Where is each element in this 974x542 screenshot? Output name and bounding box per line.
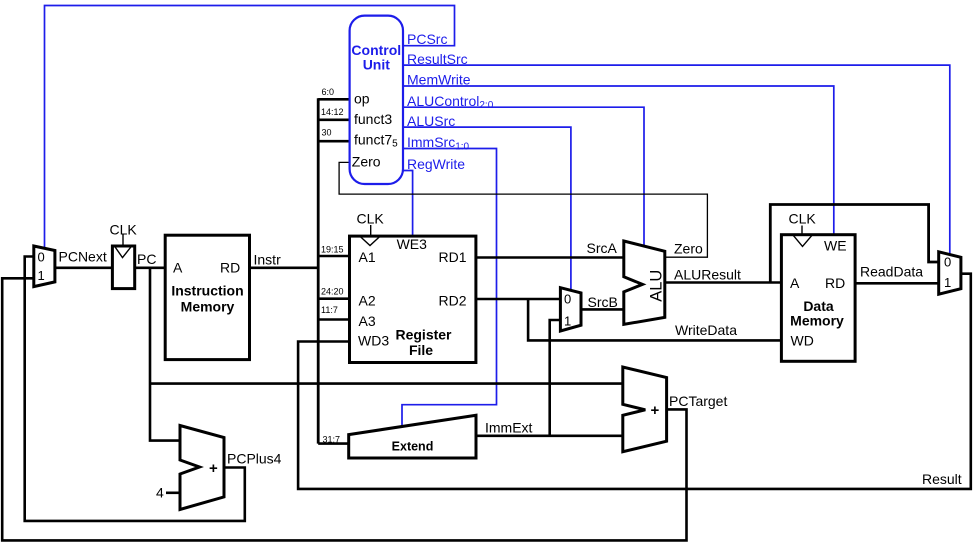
svg-text:RD: RD xyxy=(825,275,845,291)
wire PC branch down (to adders) xyxy=(150,268,180,441)
wire PC (register to Instruction Memory A) xyxy=(135,266,166,269)
svg-text:0: 0 xyxy=(944,255,951,270)
wire ImmExt branch to SrcB mux input 1 xyxy=(550,320,561,436)
svg-text:CLK: CLK xyxy=(110,222,138,238)
wire PCNext xyxy=(55,266,113,269)
svg-text:File: File xyxy=(409,342,433,358)
wire A1 stub (19:15) xyxy=(318,255,349,258)
svg-text:ResultSrc: ResultSrc xyxy=(407,51,468,67)
svg-text:30: 30 xyxy=(322,128,332,138)
svg-text:ALUSrc: ALUSrc xyxy=(407,113,455,129)
svg-text:A: A xyxy=(790,275,800,291)
svg-text:funct75: funct75 xyxy=(354,131,398,149)
svg-text:1: 1 xyxy=(944,275,951,290)
svg-text:A2: A2 xyxy=(359,293,376,309)
svg-text:+: + xyxy=(209,460,218,477)
wire Result (Result mux output to WD3 and around) xyxy=(298,274,971,489)
wire ImmExt (Extend output to PCTarget adder) xyxy=(476,434,623,437)
svg-text:ImmExt: ImmExt xyxy=(485,420,533,436)
svg-text:4: 4 xyxy=(156,485,164,501)
svg-text:31:7: 31:7 xyxy=(323,435,341,445)
svg-text:1: 1 xyxy=(564,313,571,328)
svg-text:WD: WD xyxy=(791,332,814,348)
svg-text:0: 0 xyxy=(38,250,45,265)
svg-text:PCNext: PCNext xyxy=(59,249,107,265)
svg-text:MemWrite: MemWrite xyxy=(407,72,471,88)
svg-text:op: op xyxy=(354,91,370,107)
svg-text:+: + xyxy=(651,402,660,419)
wire ALUResult to Data Memory A xyxy=(665,281,782,284)
svg-text:Register: Register xyxy=(395,327,452,343)
svg-text:CLK: CLK xyxy=(357,211,385,227)
svg-text:Unit: Unit xyxy=(363,57,391,73)
svg-text:6:0: 6:0 xyxy=(322,87,335,97)
svg-text:14:12: 14:12 xyxy=(321,107,344,117)
svg-text:PCTarget: PCTarget xyxy=(669,393,727,409)
wire PCTarget loop (adder output to PC mux input 1) xyxy=(2,278,686,540)
svg-text:Memory: Memory xyxy=(790,312,844,328)
wire ReadData to Result mux input 1 xyxy=(855,282,939,285)
svg-text:CLK: CLK xyxy=(789,211,817,227)
svg-text:ALU: ALU xyxy=(648,270,666,302)
svg-text:RegWrite: RegWrite xyxy=(407,156,465,172)
mux SrcB (0/1) xyxy=(560,288,581,331)
wire Zero (thin feedback from ALU to Control Unit) xyxy=(339,162,707,257)
wire ImmSrc (blue control net to Extend) xyxy=(402,149,497,427)
wire PCSrc (blue control net from Control Unit to PC mux select) xyxy=(45,6,455,249)
svg-text:Instruction: Instruction xyxy=(171,283,243,299)
svg-text:A: A xyxy=(173,260,183,276)
svg-text:RD: RD xyxy=(220,260,240,276)
svg-text:SrcA: SrcA xyxy=(587,240,618,256)
wire RD2 to SrcB mux input 0 xyxy=(476,298,561,301)
block Data Memory with clock xyxy=(781,235,855,362)
wire RD1 to SrcA xyxy=(476,256,624,259)
wire PC to PCTarget adder xyxy=(150,382,623,385)
svg-text:PC: PC xyxy=(137,251,156,267)
svg-text:SrcB: SrcB xyxy=(588,294,618,310)
wire RegWrite (blue control net to Register File WE3) xyxy=(403,171,413,237)
wire ALUSrc (blue control net to SrcB mux select) xyxy=(403,127,571,290)
svg-text:WE: WE xyxy=(824,237,847,253)
wire 31:7 stub to Extend xyxy=(318,442,349,445)
wire funct3 stub to Control Unit xyxy=(318,119,349,122)
wire ALUControl (blue control net to ALU) xyxy=(403,107,644,246)
adder PCPlus4 xyxy=(180,426,224,510)
block Control Unit xyxy=(350,16,403,184)
svg-text:WD3: WD3 xyxy=(358,333,389,349)
block Extend xyxy=(349,415,476,458)
svg-text:RD2: RD2 xyxy=(439,293,467,309)
register PC with clock input xyxy=(112,246,134,289)
wire ResultSrc (blue control net to Result mux select) xyxy=(403,65,950,255)
svg-text:Result: Result xyxy=(922,471,962,487)
svg-text:ALUResult: ALUResult xyxy=(674,267,741,283)
svg-text:PCSrc: PCSrc xyxy=(407,31,447,47)
wire PCPlus4 loop (adder output to PC mux input 0) xyxy=(25,257,245,521)
svg-text:1: 1 xyxy=(38,268,45,283)
svg-text:RD1: RD1 xyxy=(439,249,467,265)
wire Instr (Instruction Memory RD to instruction bus) xyxy=(250,266,319,269)
svg-text:PCPlus4: PCPlus4 xyxy=(227,451,282,467)
wire SrcB mux output to ALU xyxy=(581,308,624,311)
svg-text:Zero: Zero xyxy=(674,241,703,257)
svg-text:Memory: Memory xyxy=(181,298,235,314)
svg-text:ReadData: ReadData xyxy=(860,264,923,280)
wire op stub to Control Unit xyxy=(318,98,349,101)
svg-text:24:20: 24:20 xyxy=(321,287,344,297)
adder PCTarget xyxy=(623,367,667,452)
svg-text:19:15: 19:15 xyxy=(321,245,344,255)
svg-text:0: 0 xyxy=(564,292,571,307)
block Instruction Memory xyxy=(165,235,249,359)
alu ALU xyxy=(624,241,665,324)
svg-text:WE3: WE3 xyxy=(397,236,428,252)
block Register File with clock xyxy=(350,236,476,362)
wire ALUResult loop over Data Memory to Result mux input 0 xyxy=(770,205,938,283)
wire A2 stub (24:20) xyxy=(318,297,349,300)
wire WriteData branch xyxy=(528,299,781,340)
svg-text:WriteData: WriteData xyxy=(675,322,737,338)
mux PC source (0/1) xyxy=(34,246,55,287)
svg-text:Zero: Zero xyxy=(352,153,381,169)
mux Result (0/1) xyxy=(939,252,961,294)
svg-text:funct3: funct3 xyxy=(354,111,392,127)
wire instruction bus vertical xyxy=(317,98,320,443)
svg-text:A1: A1 xyxy=(359,249,376,265)
wire MemWrite (blue control net to Data Memory WE) xyxy=(403,86,834,235)
svg-text:Instr: Instr xyxy=(254,252,282,268)
svg-text:11:7: 11:7 xyxy=(321,305,338,315)
wire 4 constant into PCPlus4 adder xyxy=(166,491,180,494)
svg-text:Extend: Extend xyxy=(392,439,434,453)
wire funct7 stub to Control Unit xyxy=(318,140,349,143)
svg-text:A3: A3 xyxy=(359,313,376,329)
wire A3 stub (11:7) xyxy=(318,318,349,321)
